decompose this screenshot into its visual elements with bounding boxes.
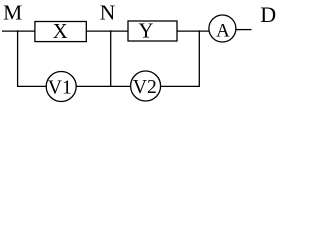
svg-text:A: A — [216, 21, 230, 42]
voltmeter V1 — [46, 72, 76, 102]
svg-text:V2: V2 — [133, 77, 157, 98]
svg-text:X: X — [53, 21, 68, 43]
svg-text:D: D — [260, 2, 276, 27]
wire bottom left to V1 — [17, 85, 47, 87]
wire X to Y — [86, 30, 129, 32]
svg-text:M: M — [3, 1, 22, 25]
wire V1 to V2 — [76, 85, 131, 87]
svg-text:N: N — [100, 1, 116, 25]
wire right vertical — [198, 30, 200, 87]
wire left vertical (M junction down) — [17, 30, 19, 87]
wire V2 to right vertical — [161, 85, 200, 87]
wire A to D — [236, 29, 252, 31]
voltmeter V2 — [131, 71, 161, 101]
resistor box Y — [128, 21, 177, 43]
wire mid vertical (N junction down) — [110, 30, 112, 87]
svg-text:Y: Y — [139, 21, 154, 43]
svg-text:V1: V1 — [48, 77, 72, 98]
resistor box X — [35, 21, 86, 43]
ammeter A — [209, 15, 236, 42]
wire M to X — [2, 30, 36, 32]
wire Y to A — [177, 30, 210, 32]
